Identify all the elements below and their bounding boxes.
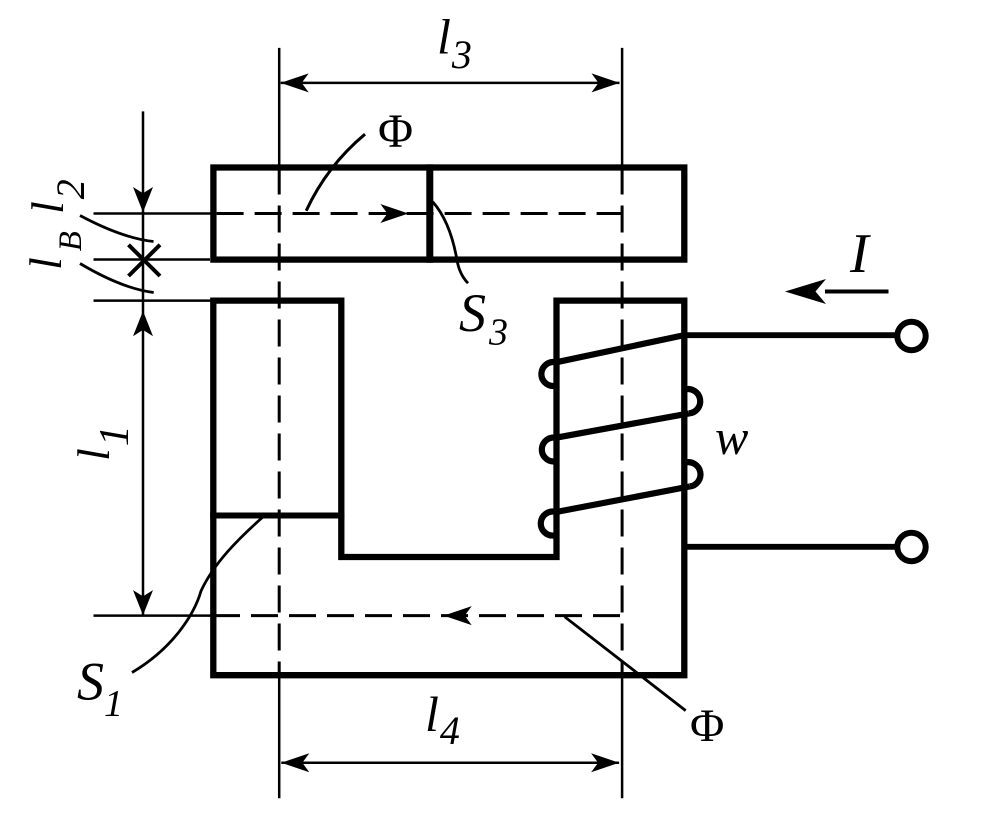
- arrowhead l4 left: [281, 753, 309, 772]
- leader flux top label: [306, 134, 365, 211]
- extension line right vertical top: [621, 48, 624, 168]
- svg-text:Φ: Φ: [690, 700, 724, 752]
- coil loop left 3: [541, 512, 556, 536]
- leader flux bottom label: [565, 617, 686, 711]
- coil turn wire 2 (diagonal): [556, 413, 689, 437]
- svg-text:S1: S1: [77, 652, 123, 726]
- coil loop left 1: [541, 362, 556, 386]
- svg-text:l1: l1: [68, 425, 138, 461]
- leader lB: [80, 264, 154, 293]
- arrowhead l1 down: [133, 590, 153, 615]
- extension line left vertical top: [278, 48, 281, 168]
- flux arrow bottom: [444, 606, 472, 625]
- section divider S3 in armature: [426, 164, 433, 262]
- arrowhead l3 right: [592, 73, 620, 92]
- current arrowhead: [785, 279, 826, 304]
- coil turn wire 1 (diagonal): [556, 335, 685, 362]
- extension line armature bottom: [94, 258, 211, 261]
- svg-text:I: I: [849, 223, 871, 285]
- arrowhead l3 left: [281, 73, 309, 92]
- extension line left vertical bottom: [278, 675, 281, 798]
- svg-text:l2: l2: [22, 179, 93, 214]
- current arrow line: [825, 290, 889, 294]
- leader S1: [132, 516, 264, 673]
- flux path bottom (dashed): [213, 614, 622, 617]
- flux path top (dashed): [217, 212, 622, 215]
- extension line core top: [94, 299, 214, 302]
- extension line flux bottom: [94, 614, 214, 617]
- dimension line l3: [281, 82, 620, 85]
- section line S1 in left limb: [210, 513, 344, 519]
- flux arrow top: [380, 204, 408, 223]
- svg-text:w: w: [715, 409, 748, 465]
- svg-text:lB: lB: [20, 231, 89, 270]
- coil loop right 2: [685, 462, 701, 486]
- arrowhead l2 down: [133, 187, 153, 212]
- center line left limb (dashed): [278, 168, 281, 676]
- extension line right vertical bottom: [621, 675, 624, 798]
- coil lead top: [684, 332, 898, 338]
- core (C-shaped magnetic core): [213, 301, 684, 676]
- coil turn wire 3 (diagonal): [556, 487, 690, 513]
- svg-text:l3: l3: [437, 9, 472, 78]
- extension line armature centerline: [94, 212, 214, 215]
- terminal bottom: [897, 533, 925, 561]
- svg-text:Φ: Φ: [378, 105, 413, 158]
- coil loop left 2: [542, 438, 556, 462]
- center line right limb (dashed): [621, 168, 624, 676]
- dimension line l4: [281, 761, 619, 764]
- leader l2: [80, 216, 154, 242]
- coil loop right 1: [685, 389, 701, 413]
- leader S3: [433, 202, 468, 283]
- air gap tick cross: [129, 245, 161, 276]
- armature bar (top yoke): [213, 168, 684, 260]
- svg-text:S3: S3: [459, 283, 508, 354]
- arrowhead l1 up: [133, 311, 153, 336]
- svg-text:l4: l4: [425, 686, 460, 753]
- dimension line left stack vertical: [142, 111, 145, 615]
- coil lead bottom: [684, 544, 898, 550]
- terminal top: [897, 322, 925, 350]
- arrowhead l4 right: [591, 753, 619, 772]
